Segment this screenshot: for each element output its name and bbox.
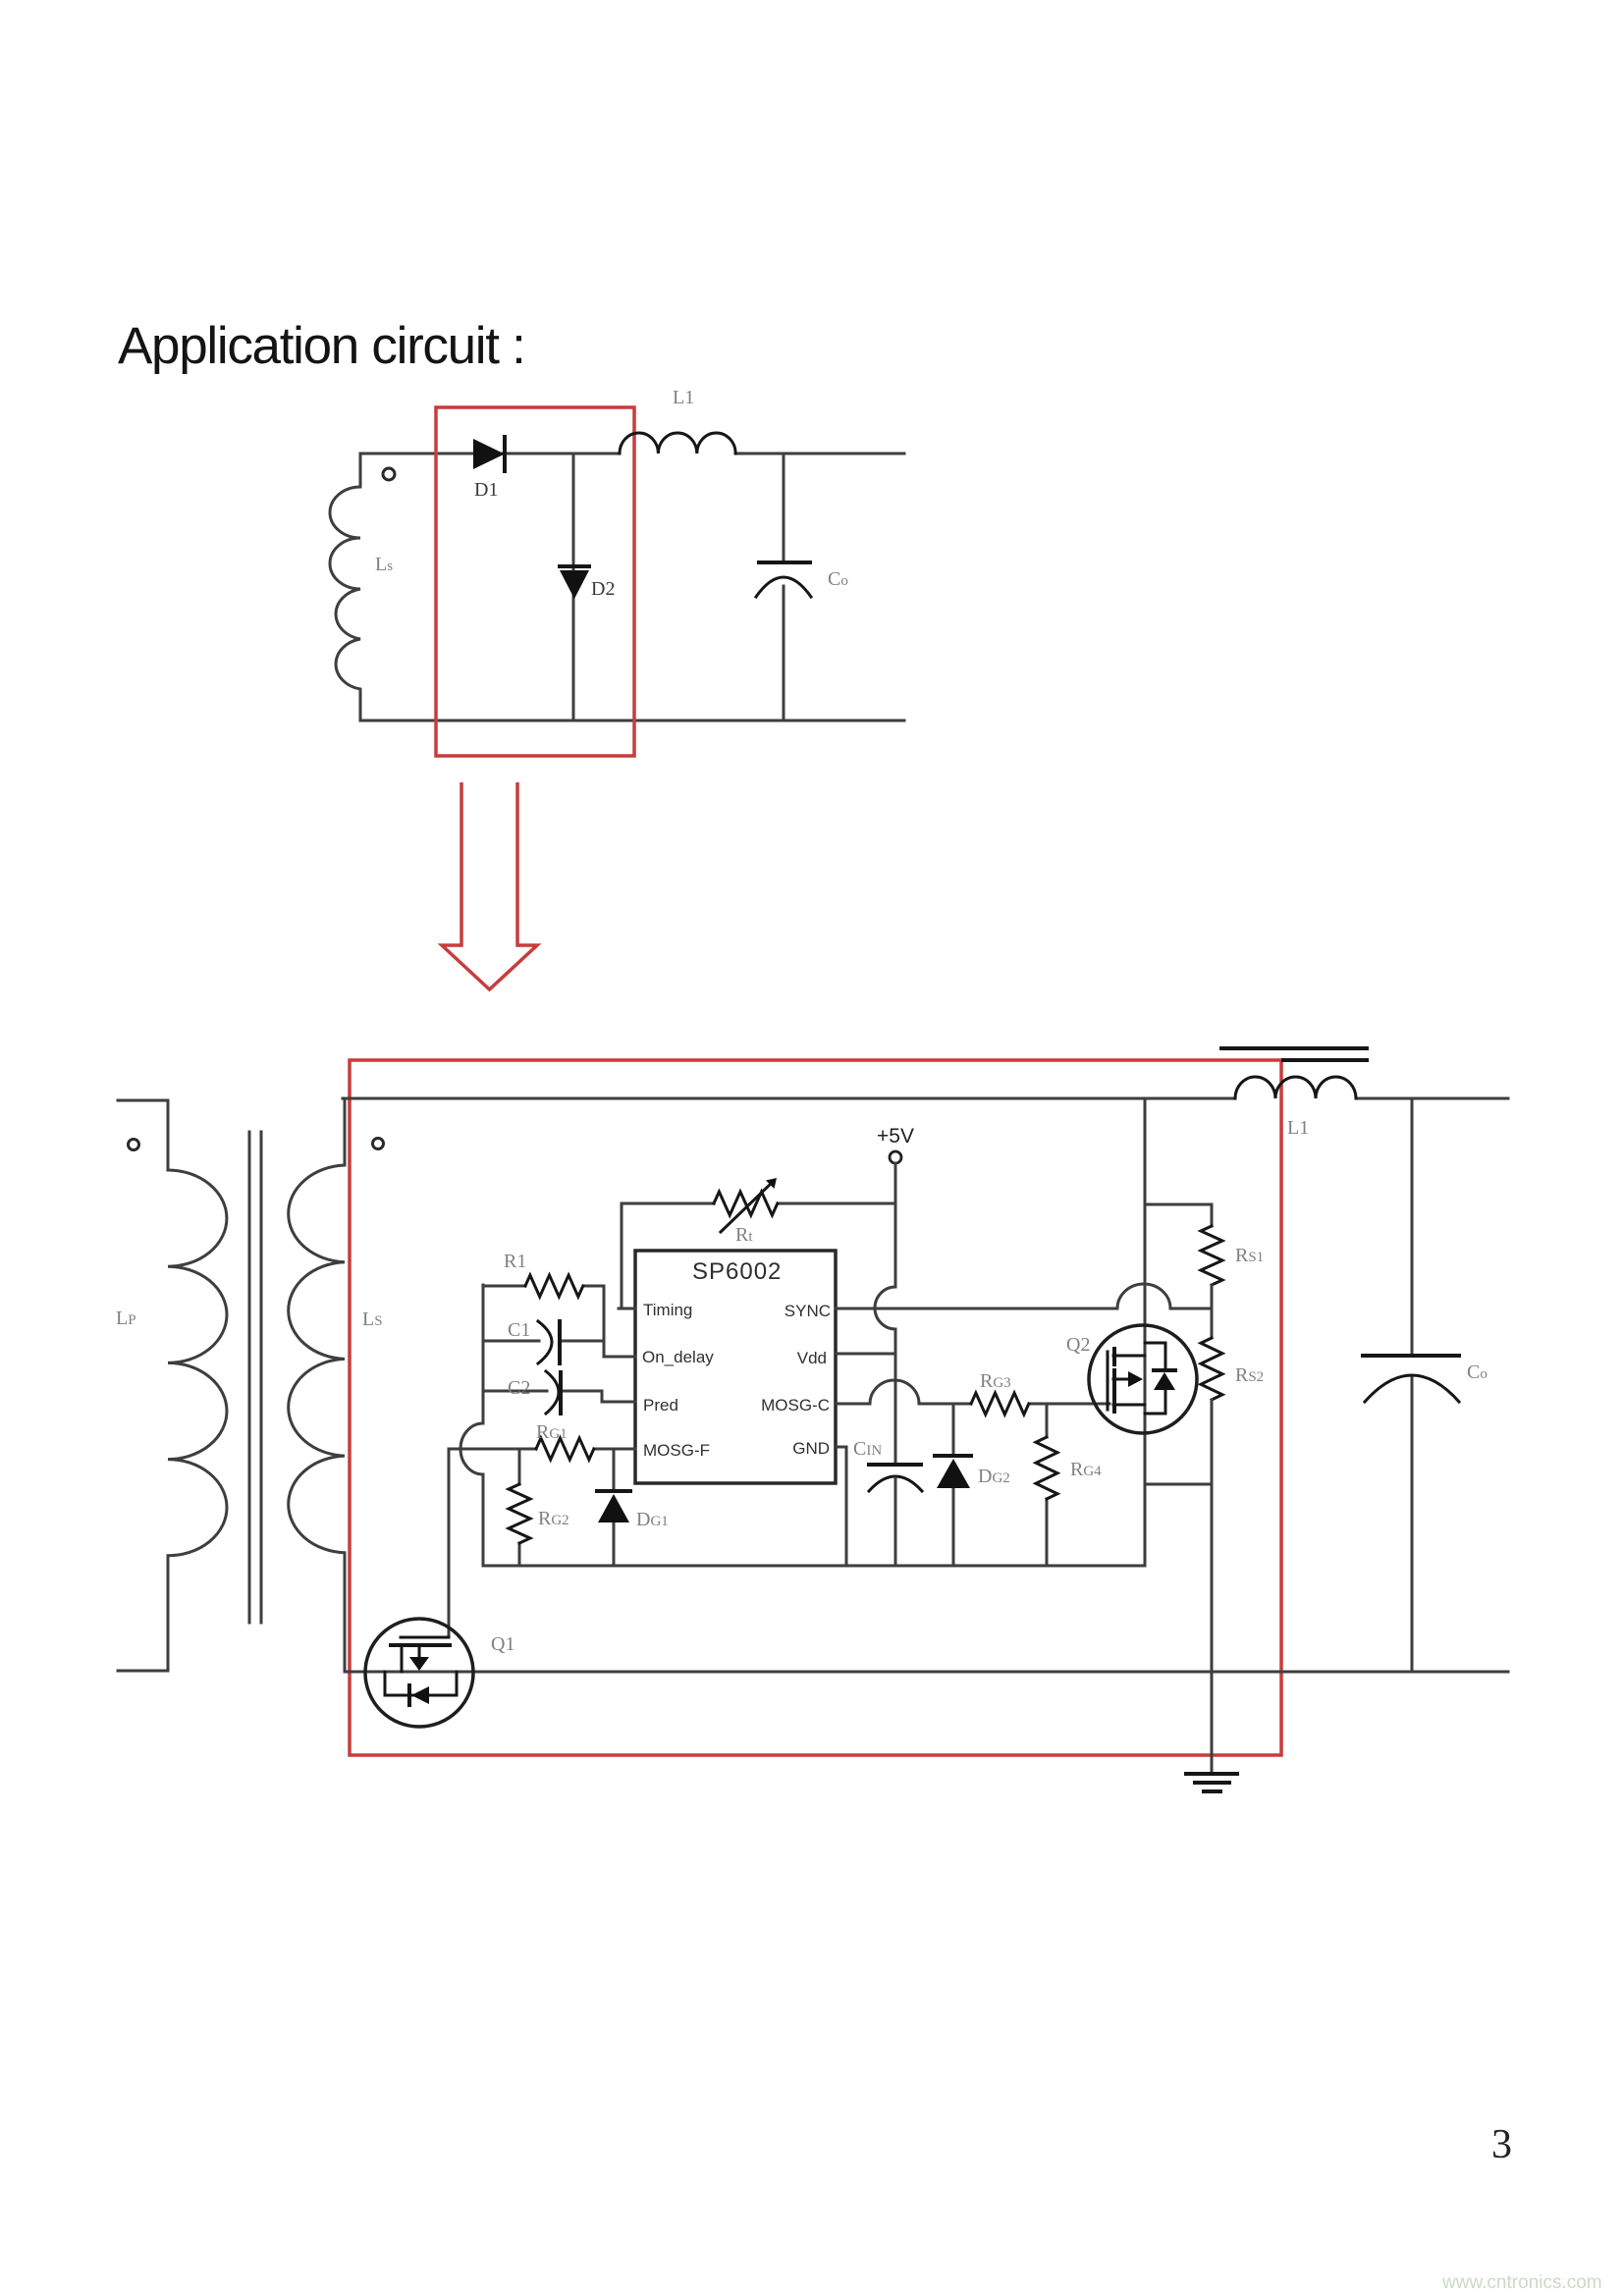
node +5V supply	[877, 1125, 914, 1163]
transformer primary winding Lp	[168, 1170, 227, 1556]
resistor RG4	[1036, 1404, 1057, 1566]
polarity dot primary	[129, 1140, 139, 1150]
wire +5V vertical with hop over SYNC	[875, 1163, 895, 1465]
output bottom rail	[345, 1671, 1508, 1674]
svg-text:SYNC: SYNC	[784, 1302, 831, 1320]
output top rail	[343, 1097, 1508, 1100]
wire MOSG-C net with hop over +5V	[837, 1380, 1109, 1404]
transformer core	[249, 1132, 261, 1623]
wire D2 branch vertical	[572, 454, 575, 721]
capacitor CIN	[869, 1465, 922, 1566]
IC U1 SP6002 box	[635, 1251, 836, 1483]
resistor R1	[483, 1275, 604, 1297]
wire RS1 top branch	[1145, 1204, 1212, 1226]
wire R1/C1 right vertical to On_delay	[604, 1286, 635, 1357]
svg-text:Pred: Pred	[643, 1396, 678, 1415]
wire Vdd to +5V	[837, 1353, 895, 1356]
wire Q2 drain/source vertical	[1144, 1098, 1147, 1566]
wire Q1 gate drop	[448, 1449, 451, 1637]
capacitor C2	[483, 1371, 635, 1414]
capacitor Co (top circuit)	[756, 454, 811, 721]
red block arrow pointing down	[442, 782, 537, 989]
diode DG1	[597, 1449, 630, 1566]
diode D2	[560, 566, 589, 599]
transformer primary bottom lead	[118, 1556, 168, 1671]
wire GND pin drop	[837, 1447, 846, 1566]
svg-text:3: 3	[1491, 2122, 1512, 2167]
svg-text:D2: D2	[591, 578, 615, 600]
svg-text:MOSG-F: MOSG-F	[643, 1441, 710, 1460]
transformer primary top lead	[118, 1100, 168, 1170]
inductor L1 (top circuit)	[620, 433, 735, 454]
wire RS1-RS2 link	[1211, 1285, 1214, 1338]
inductor L1 core bar upper	[1221, 1046, 1367, 1050]
wire inner ground rail	[483, 1565, 1145, 1568]
capacitor C1	[483, 1321, 604, 1363]
diode DG2	[935, 1404, 971, 1566]
svg-text:R1: R1	[504, 1251, 526, 1272]
polarity dot secondary	[373, 1139, 384, 1149]
capacitor Co (bottom circuit)	[1363, 1098, 1459, 1669]
wire top rail of small circuit	[360, 453, 904, 455]
svg-text:C1: C1	[508, 1319, 530, 1341]
svg-text:www.cntronics.com: www.cntronics.com	[1441, 2272, 1602, 2293]
svg-text:+5V: +5V	[877, 1125, 914, 1148]
svg-text:L1: L1	[1287, 1117, 1309, 1139]
svg-text:GND: GND	[792, 1439, 830, 1458]
inductor Ls (top circuit secondary winding)	[330, 454, 360, 721]
wire MOSG-F / RG1 net	[449, 1448, 635, 1451]
svg-text:D1: D1	[474, 479, 498, 501]
wire Timing pin stub	[619, 1308, 635, 1310]
wire bottom rail of small circuit	[360, 720, 904, 722]
resistor RG2	[509, 1449, 530, 1566]
svg-text:Timing: Timing	[643, 1301, 692, 1319]
wire SYNC net with hop over Q2 drain line	[836, 1284, 1212, 1308]
svg-text:On_delay: On_delay	[642, 1348, 714, 1366]
transformer secondary winding Ls	[289, 1098, 345, 1671]
wire RS2 bottom to ground drop and Q2 source tie	[1145, 1400, 1212, 1773]
svg-text:Q1: Q1	[491, 1633, 514, 1655]
red highlight rectangle (top circuit)	[436, 407, 634, 756]
svg-text:Vdd: Vdd	[797, 1349, 827, 1367]
wire Rt net (Timing to +5V)	[622, 1203, 895, 1308]
svg-text:MOSG-C: MOSG-C	[761, 1396, 830, 1415]
red highlight rectangle (bottom circuit)	[350, 1060, 1281, 1755]
transistor Q2 (MOSFET)	[1089, 1325, 1197, 1433]
node polarity dot (top circuit)	[383, 468, 395, 480]
resistor Rt (variable)	[714, 1178, 778, 1232]
transistor Q1 (MOSFET)	[365, 1619, 473, 1727]
svg-text:L1: L1	[673, 387, 694, 408]
resistor RG1	[536, 1438, 594, 1460]
svg-text:C2: C2	[508, 1377, 530, 1399]
inductor L1 (bottom circuit)	[1235, 1077, 1356, 1098]
svg-text:Q2: Q2	[1066, 1334, 1090, 1356]
svg-text:Application circuit :: Application circuit :	[118, 317, 525, 375]
resistor RS1	[1201, 1226, 1222, 1285]
svg-text:SP6002: SP6002	[692, 1258, 782, 1285]
wire left bus with hop over RG1 wire	[460, 1285, 483, 1566]
resistor RS2	[1201, 1338, 1222, 1400]
ground	[1186, 1774, 1237, 1791]
diode D1	[473, 437, 505, 471]
resistor RG3	[971, 1393, 1029, 1415]
